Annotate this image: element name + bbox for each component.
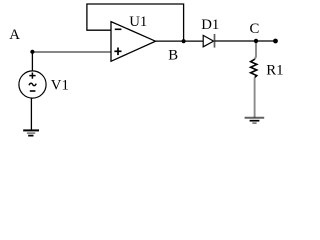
ground (below R1) (245, 118, 265, 123)
wire V1 to ground (30, 98, 32, 130)
wire op-amp output to diode (156, 40, 204, 42)
svg-text:R1: R1 (266, 63, 283, 79)
wire A down to V1 (31, 52, 33, 71)
terminal dot (273, 39, 278, 44)
op-amp U1 (111, 22, 156, 62)
svg-text:B: B (168, 48, 178, 64)
svg-text:D1: D1 (201, 17, 219, 33)
wire C to terminal (256, 40, 276, 42)
wire A to op-amp + input (32, 51, 111, 53)
diode D1 (203, 34, 214, 48)
ground (below V1) (23, 130, 39, 135)
node B junction (182, 39, 186, 43)
wire diode to node C (215, 40, 257, 42)
svg-text:C: C (250, 21, 260, 37)
wire R1 to ground (254, 78, 256, 118)
svg-text:V1: V1 (51, 78, 69, 94)
svg-text:U1: U1 (129, 14, 147, 30)
node A junction (30, 50, 34, 54)
wire C down to R1 (255, 41, 256, 59)
feedback wire (from - input up over to output) (87, 4, 184, 41)
svg-text:A: A (9, 27, 20, 43)
resistor R1 (251, 59, 257, 77)
node C junction (254, 39, 258, 43)
voltage source V1 (19, 71, 46, 98)
